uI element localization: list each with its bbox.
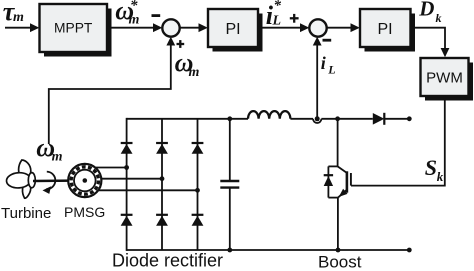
summing junction S1 <box>162 19 179 36</box>
turbine blade lower <box>23 182 31 199</box>
shaft turbine to PMSG <box>33 179 85 182</box>
wire omega_m feedback to S1 <box>49 45 171 145</box>
diode upper leg3 <box>192 143 204 154</box>
rectifier leg 2 wire <box>161 119 163 250</box>
rectifier leg 1 wire <box>126 118 128 251</box>
turbine hub <box>28 173 35 188</box>
node IGBT emitter junction dot <box>336 248 341 253</box>
capacitor C dc-link <box>220 119 239 250</box>
minus sign at summing junction S2 <box>323 39 332 42</box>
diode lower leg1 <box>121 215 133 226</box>
rotation arrow omega <box>46 172 55 190</box>
svg-text:MPPT: MPPT <box>54 21 93 36</box>
diode upper leg2 <box>156 143 168 154</box>
label i_L inductor current <box>321 53 336 77</box>
wire inductor to current sensor node <box>290 118 313 120</box>
generator PMSG symbol <box>68 164 101 197</box>
svg-text:Boost: Boost <box>318 253 362 271</box>
diode lower leg3 <box>192 215 204 226</box>
label tau_m input torque <box>3 0 24 26</box>
rectifier leg 3 wire <box>197 119 199 250</box>
inductor L boost <box>248 111 290 119</box>
wire PI1 to summing junction S2 <box>258 27 301 29</box>
svg-text:*: * <box>274 0 282 14</box>
node iL junction dot <box>315 116 320 121</box>
node DC+ output terminal dot <box>407 116 412 121</box>
node capacitor bottom junction dot <box>227 248 232 253</box>
summing junction S2 <box>309 19 326 36</box>
svg-text:m: m <box>189 65 200 80</box>
current sensor loop at node iL <box>313 119 321 123</box>
svg-text:Turbine: Turbine <box>1 205 51 222</box>
label omega_m* reference speed <box>115 0 139 27</box>
label D_k duty cycle <box>418 0 441 25</box>
svg-text:D: D <box>418 0 434 21</box>
diode D boost output <box>373 113 385 125</box>
svg-text:L: L <box>272 13 282 28</box>
svg-text:S: S <box>425 155 437 180</box>
svg-text:L: L <box>327 63 335 77</box>
wire phase B <box>92 178 162 180</box>
wire PWM to IGBT gate (S_k) <box>351 96 445 186</box>
diode lower leg2 <box>156 215 168 226</box>
plus sign at summing junction S1 <box>177 40 185 48</box>
wire tau_m input arrow <box>5 27 31 29</box>
label S_k gate signal <box>425 155 444 184</box>
minus sign at summing junction S1 <box>152 14 161 17</box>
wire S1 to PI1 <box>180 27 200 29</box>
diode anti-parallel of IGBT <box>324 166 338 197</box>
svg-text:Diode rectifier: Diode rectifier <box>112 251 223 271</box>
label omega_m rotor speed <box>36 133 62 165</box>
svg-text:PI: PI <box>377 21 392 38</box>
turbine blade upper <box>19 160 31 180</box>
wire DC bottom rail <box>127 249 409 251</box>
block PI2 current controller <box>360 9 415 52</box>
wire MPPT to summing junction S1 <box>107 27 154 29</box>
svg-text:PWM: PWM <box>426 70 463 87</box>
wire i_L feedback to S2 <box>316 45 318 119</box>
diode upper leg1 <box>121 143 133 154</box>
block MPPT <box>40 4 112 57</box>
wire diode to DC output terminal <box>384 118 409 120</box>
node capacitor top junction dot <box>227 116 232 121</box>
wire phase A <box>92 167 127 169</box>
node phase A junction dot <box>124 165 129 170</box>
svg-text:k: k <box>436 11 442 25</box>
wire S2 to PI2 <box>327 27 352 29</box>
svg-text:PMSG: PMSG <box>64 204 105 220</box>
svg-text:i: i <box>321 53 326 73</box>
svg-text:k: k <box>437 169 444 184</box>
wire DC top rail <box>127 118 248 120</box>
turbine blade left <box>6 172 31 189</box>
plus sign at summing junction S2 <box>290 14 299 23</box>
node DC- output terminal dot <box>407 248 412 253</box>
wire phase C <box>92 189 198 191</box>
label i_L* reference current <box>266 0 282 30</box>
block PI1 speed controller <box>208 9 263 52</box>
label omega_m feedback speed <box>175 48 200 80</box>
wire sensor to IGBT collector node <box>321 118 372 120</box>
node IGBT collector junction dot <box>335 116 340 121</box>
svg-text:m: m <box>52 150 63 165</box>
svg-text:PI: PI <box>225 21 240 38</box>
transistor Q IGBT <box>338 119 351 250</box>
node phase C junction dot <box>195 188 200 193</box>
block PWM <box>421 58 474 101</box>
node phase B junction dot <box>160 176 165 181</box>
svg-text:m: m <box>129 12 140 27</box>
svg-text:m: m <box>13 10 24 25</box>
wire PI2 to PWM <box>411 28 445 49</box>
